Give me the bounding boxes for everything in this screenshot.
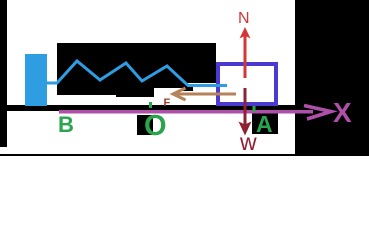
- floor bar: [0, 105, 296, 111]
- svg-text:F: F: [164, 97, 171, 109]
- black patch behind O: [137, 115, 153, 135]
- green tick above O: [149, 102, 152, 108]
- left black wall bar: [0, 0, 7, 147]
- bottom black edge line: [0, 154, 369, 156]
- svg-text:O: O: [144, 110, 167, 142]
- spring (blue zigzag): [47, 61, 227, 86]
- normal force arrow N (red, up): [240, 27, 251, 78]
- X axis line (magenta): [59, 110, 313, 114]
- big black backdrop region behind spring: [57, 43, 216, 97]
- small black blob under spring end: [182, 86, 193, 91]
- friction force arrow F (brown, left): [173, 88, 236, 100]
- X axis arrowhead: [304, 106, 331, 120]
- right black backdrop region: [295, 0, 369, 156]
- green tick above A: [253, 106, 256, 112]
- svg-text:A: A: [256, 111, 273, 137]
- svg-text:B: B: [58, 112, 74, 137]
- weight arrow W (maroon, down): [239, 88, 252, 136]
- svg-text:N: N: [238, 10, 250, 27]
- svg-text:w: w: [239, 129, 257, 155]
- black patch behind A: [252, 113, 278, 134]
- white canvas: [0, 0, 369, 156]
- mass box (indigo outline): [218, 64, 276, 104]
- svg-text:X: X: [333, 97, 352, 128]
- wall block (blue): [25, 54, 47, 106]
